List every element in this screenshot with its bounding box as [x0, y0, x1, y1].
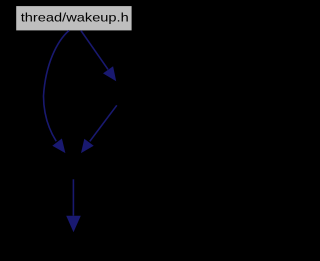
- edge E2: wakeup.h to hidden node B, straight: [81, 31, 108, 70]
- node thread/wakeup.h (box): [16, 6, 131, 30]
- edge E4 arrowhead: [66, 216, 81, 232]
- edge E3: hidden node B to hidden node A, straight: [90, 105, 117, 141]
- edge E4: hidden node A to hidden node C, vertical: [72, 179, 74, 215]
- edge E1 arrowhead: [52, 139, 65, 154]
- edge E2 arrowhead: [103, 66, 116, 81]
- edge E3 arrowhead: [81, 139, 94, 153]
- edge E1: wakeup.h to hidden node A, curved spline: [44, 31, 70, 142]
- svg-text:thread/wakeup.h: thread/wakeup.h: [21, 11, 129, 25]
